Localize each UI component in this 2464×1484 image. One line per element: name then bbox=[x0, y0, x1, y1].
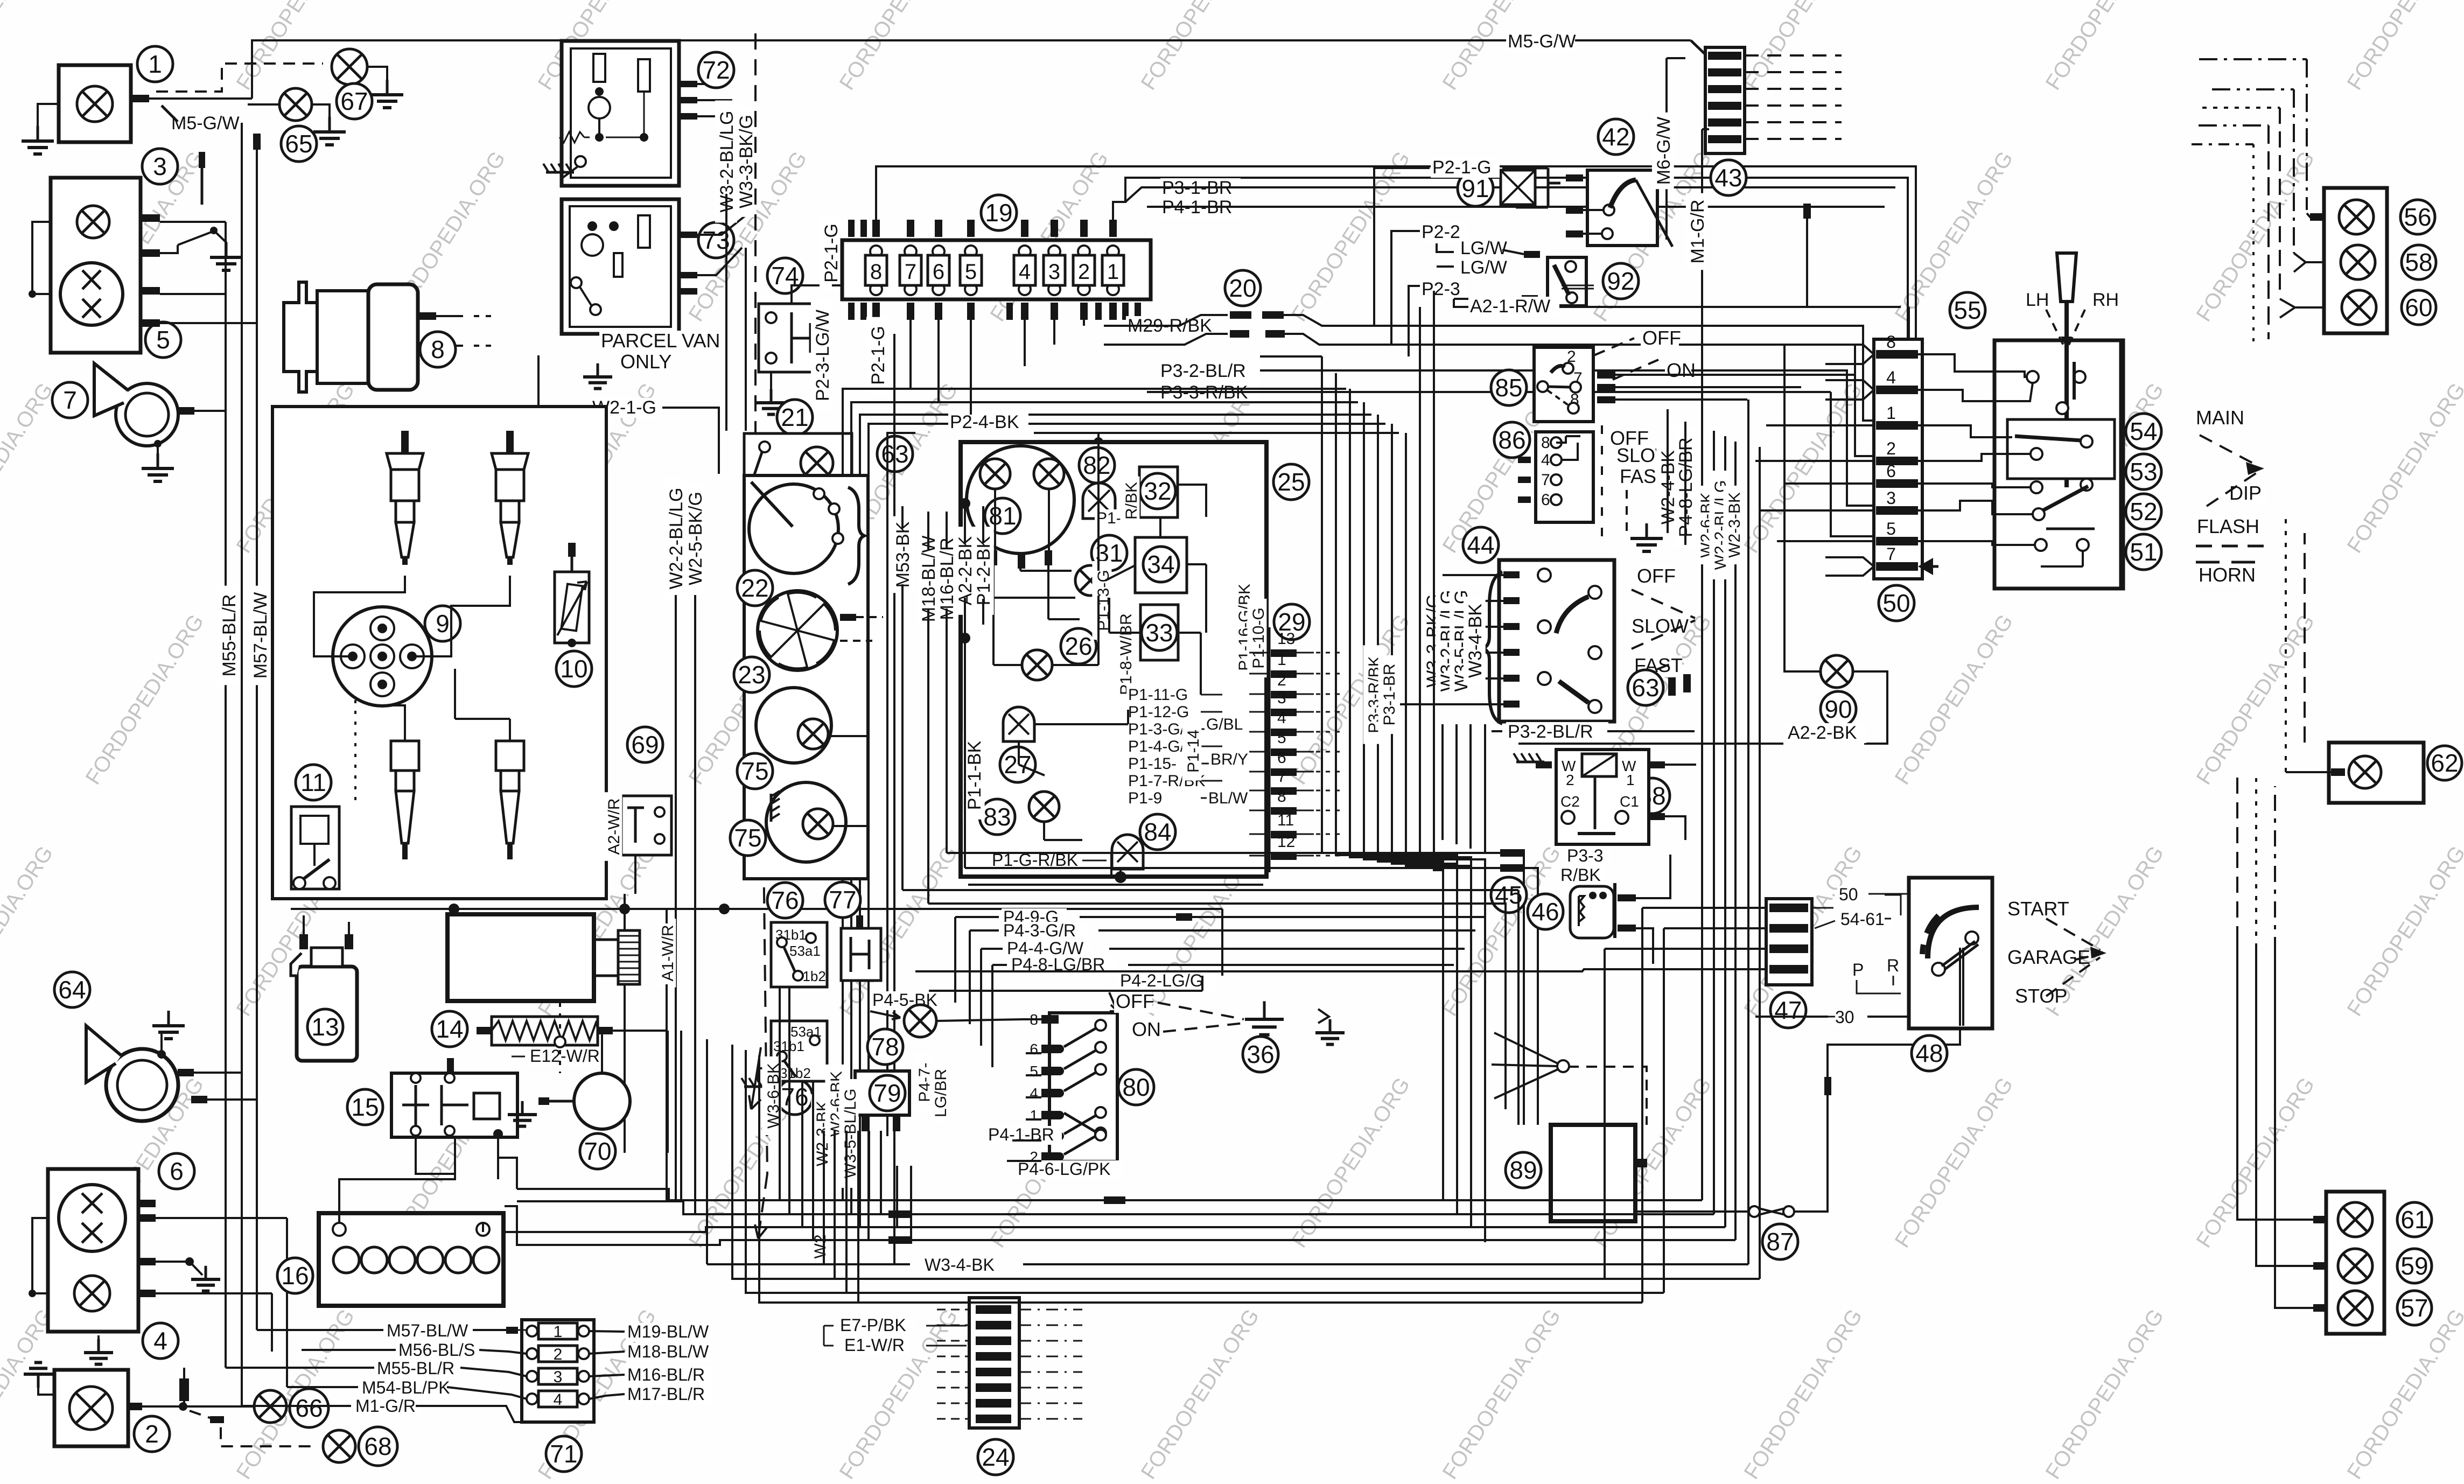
label P3-2-BL/R mid bbox=[1506, 722, 1608, 742]
headlamp/dip switch 55 bbox=[1950, 292, 1985, 328]
lamp 31 bbox=[1091, 535, 1127, 571]
svg-text:8: 8 bbox=[870, 260, 882, 284]
svg-text:75: 75 bbox=[734, 824, 761, 852]
svg-text:R/BK: R/BK bbox=[1123, 482, 1140, 520]
svg-text:BL/W: BL/W bbox=[1208, 789, 1248, 807]
svg-text:43: 43 bbox=[1714, 164, 1742, 192]
circle 20 and connector pair bbox=[1225, 270, 1261, 306]
wire lamp65 to node bbox=[248, 103, 279, 106]
horizontal runs right of 80 to right bundle bbox=[1193, 1024, 1422, 1053]
svg-text:50: 50 bbox=[1839, 885, 1858, 904]
front lamp unit 56/58/60 bbox=[2324, 188, 2387, 333]
svg-text:R/BK: R/BK bbox=[1560, 865, 1601, 885]
horn 64 terminals bbox=[178, 1069, 194, 1076]
wire M5-G/W from lamp 1 bbox=[149, 97, 252, 100]
svg-text:5: 5 bbox=[1030, 1063, 1038, 1080]
svg-text:1: 1 bbox=[1107, 260, 1119, 284]
svg-text:2: 2 bbox=[1078, 260, 1090, 284]
svg-text:P4-2-LG/G: P4-2-LG/G bbox=[1120, 971, 1203, 990]
wires from 73 to W3 labels bbox=[697, 215, 746, 235]
instrument cluster box 25 bbox=[961, 442, 1266, 877]
svg-text:M55-BL/R: M55-BL/R bbox=[219, 594, 240, 676]
svg-text:P3-3: P3-3 bbox=[1567, 846, 1604, 865]
plug wires bbox=[314, 576, 405, 656]
spark plug 4 bbox=[496, 741, 524, 771]
svg-text:51: 51 bbox=[2130, 538, 2157, 566]
wires to pins from bus left bbox=[1249, 652, 1269, 654]
svg-text:3: 3 bbox=[554, 1368, 563, 1386]
resistor 10 bbox=[555, 572, 589, 643]
horn 7 ground bbox=[157, 444, 159, 464]
svg-text:22: 22 bbox=[741, 574, 768, 602]
svg-text:14: 14 bbox=[436, 1015, 463, 1043]
switch 42 bbox=[1598, 119, 1634, 155]
fuse drop wires bbox=[1083, 320, 1085, 326]
levers 44 bbox=[1556, 597, 1588, 633]
ground under fast column bbox=[1626, 490, 1628, 533]
circle 63 right bbox=[1628, 670, 1663, 705]
svg-text:2: 2 bbox=[145, 1420, 159, 1448]
svg-text:1: 1 bbox=[1030, 1107, 1038, 1124]
svg-text:53a1: 53a1 bbox=[789, 943, 821, 959]
connector strip 50 bbox=[1874, 339, 1922, 579]
svg-text:4: 4 bbox=[1277, 709, 1286, 727]
vertical M5 wire down bbox=[241, 123, 243, 1406]
svg-text:72: 72 bbox=[702, 56, 730, 84]
wiper switch 44 bbox=[1463, 527, 1499, 563]
long dashed divider line bbox=[754, 33, 757, 474]
switch box 79 bbox=[855, 1071, 909, 1115]
svg-text:ON: ON bbox=[1667, 359, 1696, 381]
svg-text:2: 2 bbox=[1886, 439, 1896, 458]
svg-text:E1-W/R: E1-W/R bbox=[844, 1335, 905, 1355]
svg-text:30: 30 bbox=[1835, 1007, 1854, 1027]
washer pump harness lines bbox=[947, 853, 1524, 1125]
svg-text:7: 7 bbox=[1541, 471, 1550, 489]
horn symbol bbox=[116, 383, 178, 446]
dashed wire to lamp 67 bbox=[156, 64, 323, 92]
svg-text:8: 8 bbox=[1541, 434, 1550, 452]
generator 8 (dynamo with pulley) bbox=[284, 282, 317, 392]
svg-text:A2-1-R/W: A2-1-R/W bbox=[1470, 296, 1550, 317]
svg-text:ON: ON bbox=[1132, 1018, 1161, 1040]
svg-text:6: 6 bbox=[1277, 749, 1286, 767]
svg-text:E7-P/BK: E7-P/BK bbox=[840, 1315, 906, 1335]
speedometer 81 bbox=[967, 446, 1074, 554]
svg-text:P4-6-LG/PK: P4-6-LG/PK bbox=[1018, 1159, 1111, 1179]
svg-text:W2-3-BK: W2-3-BK bbox=[1726, 492, 1744, 558]
feed arrows into strip 50 bbox=[1825, 345, 1874, 364]
svg-text:G/BL: G/BL bbox=[1206, 716, 1243, 733]
control box 89 bbox=[1506, 1152, 1541, 1188]
wire solenoid to battery bbox=[416, 1137, 455, 1163]
box 32 bbox=[1139, 467, 1178, 517]
ground 36 bbox=[1243, 1037, 1278, 1072]
svg-text:OFF: OFF bbox=[1116, 990, 1154, 1012]
starter motor 12 bbox=[504, 937, 540, 972]
fuses 1-8 bbox=[870, 246, 882, 257]
labels P3-1-BR / P4-1-BR bbox=[1113, 178, 1150, 195]
svg-text:7: 7 bbox=[63, 386, 77, 414]
wire flasher to harness bbox=[1636, 855, 1670, 898]
wire to M55 bbox=[160, 293, 226, 295]
terminals 73 bbox=[679, 232, 697, 238]
cluster 6 wires bbox=[32, 1218, 48, 1293]
lamp 82 bbox=[1079, 447, 1115, 483]
svg-text:79: 79 bbox=[873, 1079, 901, 1107]
oil pressure switch 11 bbox=[296, 765, 331, 800]
W2 harness labels bbox=[1695, 486, 1714, 564]
label P3-3 R/BK bbox=[1565, 847, 1610, 866]
G/BL BR/Y BL/W labels bbox=[1205, 716, 1247, 734]
svg-text:6: 6 bbox=[1886, 461, 1896, 481]
svg-text:46: 46 bbox=[1531, 898, 1559, 926]
svg-text:5: 5 bbox=[965, 260, 977, 284]
svg-text:54-61: 54-61 bbox=[1840, 909, 1885, 929]
spark plug 1 bbox=[401, 431, 409, 453]
svg-text:MAIN: MAIN bbox=[2196, 407, 2244, 429]
svg-text:32: 32 bbox=[1144, 477, 1171, 505]
switch 85 bbox=[1491, 370, 1527, 405]
svg-text:84: 84 bbox=[1144, 818, 1171, 846]
svg-text:65: 65 bbox=[285, 130, 312, 158]
horn 64 ground bbox=[160, 1031, 163, 1054]
ground for lamp 1 bbox=[38, 104, 59, 137]
right side labels 71 bbox=[626, 1323, 712, 1342]
M1-G/R vertical bbox=[1701, 129, 1703, 458]
svg-text:P2-4-BK: P2-4-BK bbox=[950, 412, 1019, 432]
spark plug 3 bbox=[391, 741, 419, 771]
svg-text:12: 12 bbox=[1277, 833, 1295, 851]
bus right risers (W2 harness) bbox=[1702, 458, 1760, 1279]
M6-G/W vertical bbox=[1665, 58, 1668, 240]
wires from labels right going up bbox=[711, 1326, 730, 1389]
inner box 55 lower bbox=[2007, 419, 2115, 479]
svg-text:63: 63 bbox=[1632, 674, 1659, 702]
svg-text:82: 82 bbox=[1083, 451, 1110, 479]
svg-text:1: 1 bbox=[148, 50, 162, 78]
stub bars 85 bbox=[1597, 372, 1615, 379]
stalk 55 bbox=[2057, 253, 2076, 302]
svg-text:5: 5 bbox=[156, 326, 170, 354]
svg-text:4: 4 bbox=[1019, 260, 1031, 284]
arch lamp 27 bbox=[1003, 707, 1034, 741]
svg-text:8: 8 bbox=[1277, 788, 1286, 806]
wire M5 into 43 bbox=[1506, 32, 1575, 52]
svg-text:LG/BR: LG/BR bbox=[932, 1069, 950, 1117]
svg-text:23: 23 bbox=[738, 661, 765, 689]
dashed arrow mid bbox=[749, 1047, 761, 1109]
battery wires bbox=[339, 1163, 455, 1223]
svg-text:2: 2 bbox=[554, 1346, 563, 1363]
svg-text:21: 21 bbox=[781, 403, 808, 431]
switch 76 upper bbox=[767, 883, 803, 918]
svg-text:91: 91 bbox=[1461, 174, 1489, 202]
labels W3-6 W2-3 W2-6 W3-5 bbox=[762, 1056, 781, 1135]
labels P2-2 LG/W LG/W P2-3 bbox=[1391, 231, 1429, 345]
svg-text:92: 92 bbox=[1607, 267, 1634, 295]
svg-text:W3-4-BK: W3-4-BK bbox=[1465, 604, 1486, 678]
svg-text:STOP: STOP bbox=[2015, 985, 2067, 1007]
svg-text:M1-G/R: M1-G/R bbox=[355, 1396, 416, 1416]
fuse 87 bbox=[1635, 1210, 1748, 1213]
svg-text:77: 77 bbox=[829, 886, 856, 914]
labels W3-2-BL/LG W3-3-BK/G bbox=[715, 101, 737, 223]
svg-text:P2-3-LG/W: P2-3-LG/W bbox=[813, 310, 833, 401]
svg-text:26: 26 bbox=[1065, 632, 1092, 660]
svg-text:M5-G/W: M5-G/W bbox=[171, 113, 240, 134]
svg-text:16: 16 bbox=[281, 1262, 309, 1290]
svg-text:33: 33 bbox=[1145, 619, 1173, 647]
distributor 9 bbox=[333, 607, 432, 706]
svg-text:ONLY: ONLY bbox=[620, 351, 671, 373]
svg-text:4: 4 bbox=[1030, 1085, 1038, 1102]
interior lamp 62 bbox=[2329, 743, 2424, 803]
lamp 65 bbox=[279, 88, 312, 121]
heater motor 75b bbox=[766, 782, 846, 862]
fan 23 bbox=[758, 591, 837, 670]
svg-text:P1-8-W/BR: P1-8-W/BR bbox=[1117, 613, 1135, 695]
svg-text:76: 76 bbox=[771, 886, 799, 914]
arch lamp 84 bbox=[1112, 835, 1143, 869]
svg-text:87: 87 bbox=[1766, 1228, 1794, 1256]
W3 labels bbox=[1422, 585, 1444, 696]
junction dot bottom bbox=[1115, 871, 1126, 883]
wire P2-4-BK bbox=[948, 412, 1028, 432]
flasher unit 46 bbox=[1491, 877, 1527, 913]
svg-text:19: 19 bbox=[985, 199, 1012, 227]
connector 47 bbox=[1766, 899, 1812, 985]
A1-W/R vertical bbox=[656, 919, 676, 988]
svg-text:34: 34 bbox=[1147, 550, 1174, 578]
svg-text:8: 8 bbox=[1886, 332, 1896, 352]
battery 16 bbox=[277, 1258, 313, 1293]
svg-text:53: 53 bbox=[2130, 458, 2157, 486]
svg-text:31b2: 31b2 bbox=[780, 1065, 811, 1081]
svg-text:1: 1 bbox=[1277, 651, 1286, 669]
W2 bundle tops join 85/86 lines bbox=[1702, 400, 1760, 458]
T-switch 77 bbox=[825, 882, 860, 918]
ground 88 bbox=[1514, 753, 1544, 762]
ignition switch 48 bbox=[1909, 878, 1992, 1028]
svg-text:15: 15 bbox=[351, 1093, 379, 1121]
generator terminals bbox=[418, 312, 436, 320]
wire from 3 down bbox=[201, 162, 204, 205]
vertical M55-BL/R wire bbox=[225, 222, 227, 1368]
svg-text:W3-3-BK/G: W3-3-BK/G bbox=[736, 115, 757, 208]
svg-text:48: 48 bbox=[1915, 1039, 1943, 1067]
fuse 8 drop to bundle bbox=[843, 320, 876, 389]
svg-text:7: 7 bbox=[1886, 544, 1896, 564]
svg-text:P1-14: P1-14 bbox=[1185, 730, 1202, 773]
wavy connector pair bbox=[1104, 315, 1228, 326]
terminals cluster 5 bbox=[141, 214, 160, 222]
vertical labels M53 M18 M16 A2-2 P1-2 bbox=[891, 516, 913, 593]
bottom harness bus lines bbox=[517, 1189, 1702, 1200]
lamp 91 (beam indicator) bbox=[1458, 171, 1493, 206]
svg-text:50: 50 bbox=[1882, 589, 1910, 617]
dashed tails 43 bbox=[1745, 54, 1842, 57]
svg-text:8: 8 bbox=[431, 335, 445, 363]
svg-text:4: 4 bbox=[1886, 368, 1896, 387]
left side verticals from 76/79 group down to bus bbox=[779, 987, 781, 1200]
circle label 3 bbox=[142, 149, 178, 184]
lamp 66 bbox=[254, 1390, 286, 1423]
OFF SLOW FAST dashed column bbox=[1608, 428, 1647, 450]
svg-text:3: 3 bbox=[1048, 260, 1060, 284]
svg-text:7: 7 bbox=[905, 260, 916, 284]
cluster internal wires bbox=[995, 489, 1072, 571]
svg-text:M55-BL/R: M55-BL/R bbox=[377, 1359, 454, 1378]
wire A2-1-R/W bbox=[1454, 299, 1901, 307]
horn 7 bbox=[52, 382, 88, 418]
svg-text:M53-BK: M53-BK bbox=[893, 521, 913, 587]
MAIN DIP FLASH HORN legend bbox=[2194, 408, 2244, 429]
horizontals lower mid (E-wires region) bbox=[802, 1174, 817, 1308]
svg-text:HORN: HORN bbox=[2199, 564, 2256, 586]
svg-text:P3-1-BR: P3-1-BR bbox=[1381, 663, 1398, 725]
svg-text:2: 2 bbox=[1277, 671, 1286, 689]
switch contact to ground bbox=[178, 232, 213, 245]
coil feed dashed bbox=[354, 700, 356, 802]
svg-text:RH: RH bbox=[2092, 290, 2119, 310]
svg-text:6: 6 bbox=[933, 260, 944, 284]
terminals 72 bbox=[679, 81, 697, 87]
svg-text:P: P bbox=[1852, 960, 1864, 979]
wires from 88 bbox=[1665, 764, 1696, 766]
svg-text:59: 59 bbox=[2400, 1252, 2428, 1280]
OFF/ON near 80 bbox=[1114, 991, 1152, 1013]
svg-text:85: 85 bbox=[1495, 374, 1522, 402]
svg-text:62: 62 bbox=[2431, 749, 2458, 777]
svg-text:BR/Y: BR/Y bbox=[1210, 751, 1248, 768]
svg-text:4: 4 bbox=[1541, 451, 1550, 469]
horizontals turning down into center bundle bbox=[1260, 356, 1333, 373]
horizontals below cluster box bbox=[902, 890, 1518, 1125]
svg-text:A2-W/R: A2-W/R bbox=[605, 799, 623, 855]
ground 2 bbox=[38, 1378, 54, 1395]
svg-text:3: 3 bbox=[1886, 488, 1896, 508]
P R labels bbox=[1851, 961, 1864, 980]
contacts 55 upper bbox=[2027, 371, 2039, 383]
lamp 68 bbox=[323, 1430, 355, 1462]
W3 wires under 44 bbox=[1441, 724, 1444, 840]
fusebox 19 bbox=[981, 195, 1017, 230]
svg-text:90: 90 bbox=[1824, 695, 1852, 723]
dashed link to 89 (aerial) bbox=[1568, 1067, 1647, 1125]
P3 vertical labels bbox=[1363, 645, 1382, 744]
svg-text:5: 5 bbox=[1277, 729, 1286, 747]
svg-text:M57-BL/W: M57-BL/W bbox=[250, 592, 271, 679]
svg-text:5: 5 bbox=[1886, 519, 1896, 538]
svg-text:E12-W/R: E12-W/R bbox=[530, 1046, 600, 1066]
svg-text:61: 61 bbox=[2400, 1206, 2428, 1234]
svg-text:DIP: DIP bbox=[2229, 482, 2262, 504]
svg-text:42: 42 bbox=[1602, 123, 1629, 151]
svg-text:70: 70 bbox=[584, 1137, 611, 1165]
brace 44 bbox=[1483, 572, 1502, 724]
ground 74 bbox=[770, 372, 772, 398]
svg-text:3: 3 bbox=[153, 152, 167, 180]
harness bus above instrument cluster bbox=[843, 389, 1346, 1200]
bus left riser stubs bbox=[681, 1031, 759, 1201]
svg-text:4: 4 bbox=[554, 1391, 563, 1409]
svg-text:P1-11-G: P1-11-G bbox=[1128, 686, 1188, 704]
component 21 switch+lamp box bbox=[777, 400, 813, 435]
svg-text:56: 56 bbox=[2404, 203, 2431, 231]
svg-text:36: 36 bbox=[1247, 1040, 1274, 1068]
svg-text:54: 54 bbox=[2130, 417, 2157, 445]
svg-text:11: 11 bbox=[1277, 811, 1294, 829]
spark plug 2 bbox=[506, 431, 514, 453]
cluster inner bottom line bbox=[968, 884, 1263, 886]
svg-text:LG/W: LG/W bbox=[1460, 238, 1507, 258]
dash-dot feeds to 56/58/60 bbox=[2197, 59, 2307, 213]
svg-text:57: 57 bbox=[2400, 1294, 2428, 1322]
resistor in 72 bbox=[584, 137, 644, 138]
svg-text:1: 1 bbox=[1886, 403, 1896, 423]
svg-text:1: 1 bbox=[554, 1323, 563, 1341]
svg-text:P2-1-G: P2-1-G bbox=[868, 326, 888, 385]
wires from 85 bbox=[1615, 374, 1855, 376]
lamp 90 bbox=[1821, 655, 1853, 688]
dashed chevron 44 bbox=[1632, 590, 1695, 618]
svg-text:3: 3 bbox=[1277, 689, 1286, 707]
wiper motor 70 bbox=[574, 1073, 630, 1129]
wires 69 bbox=[603, 775, 635, 796]
wires 32 bbox=[1178, 485, 1206, 517]
svg-text:71: 71 bbox=[550, 1440, 577, 1468]
wire 30 down bbox=[1755, 1016, 1909, 1018]
connector 86 bbox=[1494, 422, 1530, 458]
misc vertical links near labels P4 bbox=[1018, 953, 1026, 1053]
svg-text:P3-2-BL/R: P3-2-BL/R bbox=[1508, 722, 1593, 742]
P1-14 vertical bbox=[1182, 722, 1201, 781]
svg-text:68: 68 bbox=[364, 1432, 391, 1460]
svg-text:52: 52 bbox=[2130, 498, 2157, 526]
ballast resistor 14 bbox=[432, 1011, 467, 1047]
circle label 1 bbox=[137, 46, 173, 82]
svg-text:M16-BL/R: M16-BL/R bbox=[627, 1365, 705, 1384]
svg-text:LG/W: LG/W bbox=[1460, 257, 1507, 278]
svg-text:76: 76 bbox=[781, 1083, 808, 1111]
label P2-1-G vertical bbox=[820, 215, 842, 291]
vertical labels W2-2 W2-5 bbox=[664, 478, 687, 600]
ground 76 bbox=[758, 1068, 771, 1082]
svg-text:13: 13 bbox=[311, 1013, 339, 1041]
svg-text:P1-1-BK: P1-1-BK bbox=[964, 740, 985, 810]
svg-text:P2-1-G: P2-1-G bbox=[821, 223, 842, 283]
P2-1-G vertical label near fuse 8 bbox=[866, 317, 888, 394]
svg-text:64: 64 bbox=[58, 976, 86, 1004]
svg-text:11: 11 bbox=[300, 768, 326, 796]
svg-text:78: 78 bbox=[871, 1033, 899, 1061]
svg-text:FLASH: FLASH bbox=[2197, 515, 2259, 537]
svg-text:13: 13 bbox=[1277, 630, 1295, 648]
svg-text:75: 75 bbox=[741, 757, 768, 785]
dashed link 12-15 bbox=[559, 1003, 561, 1073]
wires lamps to right bbox=[828, 733, 969, 734]
svg-text:66: 66 bbox=[295, 1394, 323, 1422]
svg-text:W2-2-BL/LG: W2-2-BL/LG bbox=[666, 488, 687, 590]
svg-text:W2-5-BK/G: W2-5-BK/G bbox=[685, 492, 706, 585]
P4 wire labels left of 80 bbox=[1118, 972, 1215, 991]
START GARAGE STOP bbox=[2006, 899, 2067, 920]
label P2-1-G bbox=[1431, 158, 1500, 178]
labels W2-4-BK P4-8-LG/BR bbox=[1656, 443, 1678, 531]
component 4 connector bbox=[143, 1323, 178, 1359]
svg-text:6: 6 bbox=[1030, 1041, 1038, 1058]
